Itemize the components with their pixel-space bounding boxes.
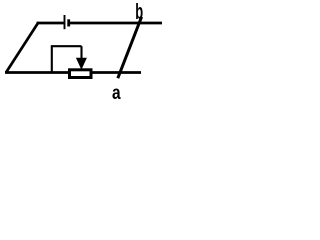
battery cell short thick plate xyxy=(67,19,70,26)
svg-text:a: a xyxy=(112,83,121,100)
slider arrow head xyxy=(76,58,87,70)
slider arrow shaft xyxy=(80,46,82,59)
wire: tap branch from bottom wire up and over to slider xyxy=(52,46,82,72)
wire: left diagonal side of loop xyxy=(6,23,38,73)
battery cell long thin plate xyxy=(64,15,66,29)
wire: right slash side crossing both wires xyxy=(118,17,142,78)
circuit schematic: cell + rheostat loop with terminals a and b xyxy=(0,0,177,100)
wire: top left segment to battery xyxy=(37,22,65,25)
wire: bottom wire xyxy=(5,71,141,74)
rheostat R body xyxy=(70,70,92,78)
svg-text:b: b xyxy=(135,0,143,24)
wire: top right segment from battery past slash xyxy=(70,22,162,25)
